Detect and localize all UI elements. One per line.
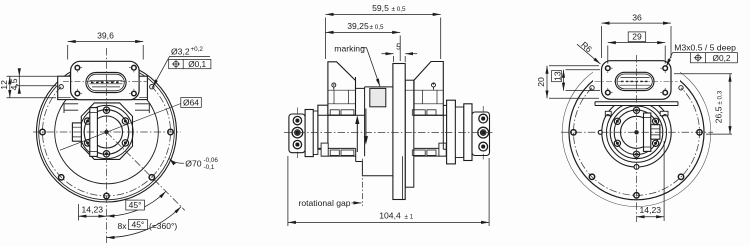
connector screw top-right: [132, 65, 137, 70]
rear connector screws 4x: [606, 66, 668, 95]
rotation arrows up/down: [357, 109, 366, 153]
center point: [104, 130, 108, 134]
svg-text:36: 36: [632, 13, 642, 23]
svg-text:± 0,5: ± 0,5: [392, 6, 406, 13]
rear hub circle: [610, 106, 663, 159]
connector housing rounded rect: [71, 61, 140, 99]
dim 26,5: [674, 74, 732, 134]
connector slot inner stadium: [88, 74, 125, 91]
hub screws 6x: [84, 107, 128, 157]
svg-text:59,5: 59,5: [372, 3, 389, 13]
right clamp plate: [464, 104, 472, 161]
middle view centerline: [284, 132, 493, 134]
dim 29 boxed: [608, 43, 665, 64]
dim 14,23: [78, 204, 106, 221]
svg-text:-0,1: -0,1: [204, 164, 215, 171]
svg-text:+0,2: +0,2: [191, 46, 204, 53]
rear vertical centerline: [636, 55, 638, 222]
rear hub screws 6x: [614, 107, 658, 157]
dim 14,23 rear: [637, 141, 665, 221]
svg-text:Ø3,2: Ø3,2: [171, 47, 190, 57]
svg-text:104,4: 104,4: [379, 210, 401, 220]
bracket pin hole bottom: [634, 165, 639, 170]
bracket end cap right: [662, 115, 666, 118]
block right of disc: [405, 80, 414, 187]
leader Ø70: [169, 159, 184, 164]
left clamp screws 3x: [292, 108, 303, 159]
dim 20: [547, 66, 599, 99]
rear right tab: [651, 125, 660, 140]
left connector column: [328, 62, 356, 115]
feature control frame pos Ø0,1: [169, 59, 211, 68]
torque bracket outer ring: [602, 98, 671, 167]
rear center point: [634, 130, 638, 134]
right connector column: [414, 62, 443, 116]
svg-text:45°: 45°: [129, 200, 142, 210]
hub ring circle: [80, 105, 133, 158]
bracket plate bar: [595, 102, 678, 106]
rotational gap dash-dot line: [361, 159, 363, 206]
body bottom band right block: [439, 143, 446, 156]
rear clamp bar: [644, 113, 651, 151]
dim 13 boxed: [564, 70, 601, 91]
right clamp block: [472, 112, 490, 156]
left column feet: [330, 110, 354, 156]
svg-text:14,23: 14,23: [640, 205, 662, 215]
bracket foot right: [660, 111, 668, 115]
45deg radial centerline: [107, 132, 185, 210]
dim line 4,5: [18, 76, 20, 86]
outer flange circle Ø70: [37, 62, 177, 202]
svg-text:39,25: 39,25: [347, 21, 369, 31]
rear horizontal centerline: [561, 131, 713, 133]
outer flange circle: [569, 65, 704, 200]
rear slot inner stadium: [617, 74, 652, 89]
rear slot contacts: [621, 80, 649, 82]
right spacer: [455, 107, 463, 158]
connector screw bottom-left: [75, 91, 80, 96]
right plate tall: [447, 100, 456, 164]
leader + boxed label Ø64: [60, 104, 181, 151]
max envelope thin circle: [562, 58, 711, 207]
body bottom band left: [318, 148, 356, 161]
angular dim arc 8x45: [107, 207, 182, 238]
dim 39,25: [326, 32, 401, 61]
bracket foot left: [605, 111, 611, 115]
rear connector rounded rect: [602, 61, 672, 100]
right clamp screws 3x: [478, 106, 489, 160]
marking square: [370, 88, 386, 106]
angular dim arc 45: [107, 191, 166, 216]
rear slot outer stadium: [615, 72, 654, 90]
svg-text:Ø64: Ø64: [183, 97, 199, 107]
dim 4,5 and 12 extension lines: [7, 69, 58, 98]
disc lower divider: [402, 156, 404, 199]
svg-text:12: 12: [0, 80, 9, 90]
dim 5 (disc width): [382, 54, 418, 62]
body bottom band right: [412, 148, 447, 156]
bolt holes 8x Ø3.2: [40, 85, 173, 199]
right column feet: [412, 110, 436, 156]
svg-text:marking: marking: [334, 43, 365, 53]
svg-text:29: 29: [632, 32, 642, 42]
connector slot outer stadium: [86, 72, 126, 92]
torque bracket inner ring: [607, 102, 667, 162]
left shaft clamp block: [289, 114, 305, 153]
left notch in housing: [64, 104, 78, 113]
inner flange circle: [39, 64, 175, 200]
feature control frame pos Ø0,2: [691, 53, 738, 63]
svg-text:rotational gap: rotational gap: [299, 198, 351, 208]
svg-text:14,23: 14,23: [82, 205, 104, 215]
bolt circle Ø64 dash-dot arc: [43, 87, 171, 196]
leader Ø3,2: [153, 57, 210, 88]
rear hub bore: [621, 116, 653, 148]
right column internal lines: [405, 90, 443, 104]
svg-text:Ø0,2: Ø0,2: [713, 53, 731, 63]
shaft clamp bar: [90, 108, 98, 157]
svg-text:(=360°): (=360°): [149, 221, 177, 231]
hub outer circle: [84, 110, 129, 155]
rear bolt circle dash-dot: [574, 88, 700, 195]
bracket pin hole left: [598, 130, 602, 134]
svg-text:Ø70: Ø70: [185, 159, 201, 169]
left body section: [318, 105, 328, 149]
dim line 12: [9, 76, 11, 98]
dim 104,4: [288, 156, 489, 226]
slot contact lines: [90, 81, 123, 87]
svg-text:-0,06: -0,06: [204, 157, 219, 164]
svg-text:± 0,5: ± 0,5: [370, 24, 384, 31]
inner housing circle: [55, 80, 159, 184]
bottom step below body: [356, 162, 393, 176]
left spacer plate: [313, 111, 318, 155]
hub octagon plate: [81, 103, 132, 159]
central disc (flange edge-on): [393, 64, 405, 200]
right body section: [443, 105, 454, 149]
body bottom band left block: [321, 143, 328, 156]
R6 label + leader: [577, 44, 601, 64]
hub bore circle: [91, 116, 123, 148]
left connector screw symbol: [332, 83, 336, 90]
dim 59,5: [326, 14, 441, 59]
mounting base plate: [58, 76, 148, 99]
left tab on hub: [72, 123, 81, 141]
rear hub screw circle: [614, 110, 659, 155]
connector screw top-left: [75, 65, 136, 95]
svg-text:20: 20: [536, 77, 546, 87]
dim 39,6: [68, 42, 144, 60]
svg-text:Ø0,1: Ø0,1: [188, 59, 206, 69]
rear connector dashed centerline: [595, 81, 678, 83]
svg-text:M3x0.5 / 5 deep: M3x0.5 / 5 deep: [674, 43, 736, 53]
svg-text:39,6: 39,6: [97, 30, 114, 40]
dim 36: [602, 23, 672, 58]
rear bolt holes: [571, 86, 702, 198]
right notch in housing: [135, 104, 149, 113]
svg-text:8x: 8x: [118, 221, 128, 231]
svg-text:± 1: ± 1: [405, 213, 414, 220]
boxed 45 label: [126, 200, 145, 210]
left column internal lines: [328, 90, 356, 104]
vertical centerline: [106, 48, 108, 243]
svg-text:13: 13: [552, 71, 562, 81]
cover plate region: [593, 56, 680, 105]
svg-text:5: 5: [396, 41, 401, 51]
right connector screw symbol: [432, 83, 436, 90]
M3 label + leader: [666, 53, 672, 67]
left clamp plate: [305, 110, 313, 157]
connector screw bottom-right: [132, 91, 137, 96]
horizontal centerline: [33, 131, 181, 133]
mid body section outline: [318, 77, 447, 156]
svg-text:4,5: 4,5: [9, 78, 19, 90]
svg-text:45°: 45°: [131, 219, 144, 229]
bracket end cap left: [606, 115, 610, 118]
connector dashed centerline: [63, 80, 147, 82]
